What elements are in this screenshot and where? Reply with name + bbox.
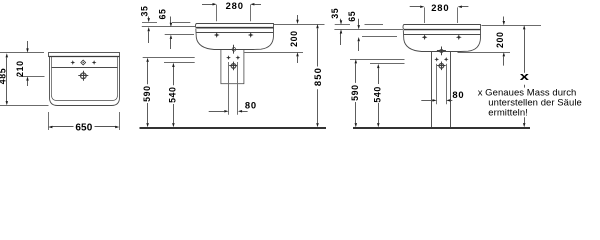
tap cross back (side A) (248, 32, 254, 38)
siphon box (side A) (221, 50, 244, 84)
dim 590 ref (side A) (143, 57, 195, 59)
dim 650 (52, 126, 74, 128)
floor line (side A) (140, 127, 327, 129)
svg-text:80: 80 (245, 99, 257, 110)
svg-text:280: 280 (226, 0, 244, 11)
dim 850 (side A) (316, 24, 319, 28)
dim 280 ext right (side A) (250, 5, 252, 22)
drain outlet cross (side B) (441, 47, 443, 56)
dim 200 (side A) (297, 15, 299, 20)
pedestal (side B) (431, 52, 433, 129)
rim band (side A) (195, 24, 273, 29)
fixing screw left (side B) (434, 57, 439, 62)
deck line (side A) (196, 32, 273, 34)
fixing screw left (side A) (226, 55, 231, 60)
svg-text:x: x (520, 71, 531, 83)
dim ref rim-top ext right (side A) (274, 24, 325, 26)
dim 540 (side A) (172, 63, 175, 67)
svg-text:850: 850 (312, 67, 323, 86)
dim ref L1 (35 top, side B) (335, 24, 350, 26)
dim 35 (side B) (340, 19, 342, 21)
dim 650 ext right (119, 112, 121, 130)
tap hole cross right (92, 60, 97, 65)
bowl profile (side A) (196, 28, 274, 50)
dim 200 (side B) (503, 17, 505, 22)
dim 65 (side A) (170, 17, 172, 24)
dim 280 ext left (side B) (424, 7, 426, 23)
deck line (side B) (404, 34, 481, 36)
svg-text:590: 590 (350, 84, 360, 100)
dim ref L3 tap level ext (side B) (362, 36, 397, 38)
svg-text:200: 200 (495, 32, 505, 48)
dim ref L3 tap level ext (side A) (165, 34, 194, 36)
tap hole cross centre (81, 60, 86, 65)
dim ref 200 bottom (side A) (244, 52, 303, 54)
svg-text:590: 590 (142, 85, 152, 101)
dim 540 ref (side A) (164, 62, 195, 64)
dim 35 (side A) (148, 17, 150, 19)
dim 80 ext left (side B) (436, 64, 438, 105)
fixing screw right (side B) (444, 57, 449, 62)
siphon circle (side B) (439, 63, 444, 68)
svg-text:ermitteln!: ermitteln! (488, 107, 528, 118)
dim 485 vertical (6, 53, 9, 57)
basin body inner (52, 57, 118, 101)
dim ref L2 rim bottom ext (side A) (142, 26, 195, 28)
dim ref line bottom (485) (0, 105, 49, 107)
dim 65 (side B) (358, 19, 360, 26)
rim band (side B) (403, 25, 481, 30)
svg-text:650: 650 (75, 122, 92, 133)
svg-text:200: 200 (289, 30, 299, 46)
bowl profile (side B) (403, 30, 480, 52)
dim 540 ref (side B) (370, 63, 405, 65)
deck line (52, 67, 118, 69)
dim 590 (side A) (146, 58, 149, 62)
dim 590 ref (side B) (350, 59, 405, 61)
dim 210 vertical (27, 41, 29, 49)
dim 280 ext right (side B) (457, 7, 459, 23)
dim 540 (side B) (377, 64, 380, 68)
basin rim band (front) (49, 53, 120, 57)
dim 280 (side B) (410, 6, 421, 8)
dim ref rim-top ext right (side B) (482, 25, 542, 27)
drain outlet cross (side A) (233, 45, 235, 54)
svg-text:540: 540 (373, 86, 383, 102)
dim 280 (side A) (202, 4, 213, 6)
svg-text:210: 210 (15, 60, 25, 76)
svg-text:35: 35 (330, 8, 340, 19)
dim 80 ext right (side B) (446, 64, 448, 105)
dim 80 (side A) (209, 111, 225, 113)
tap cross front (side B) (422, 34, 428, 40)
dim 650 ext left (48, 112, 50, 130)
dim 280 ext left (side A) (216, 5, 218, 22)
basin body outer (50, 57, 120, 106)
overflow/drain target (80, 73, 86, 79)
dim ref L1 (35 top, side A) (142, 22, 157, 24)
svg-text:485: 485 (0, 68, 8, 84)
dim 80 (side B) (421, 100, 432, 102)
floor line (side B) (353, 127, 530, 129)
dim ref line bottom (210) (19, 76, 45, 78)
dim ref L2 rim bottom ext (side B) (334, 29, 403, 31)
tap cross front (side A) (214, 32, 220, 38)
dim 80 ext right (side A) (237, 62, 239, 115)
dim 80 ext left (side A) (228, 62, 230, 115)
svg-text:80: 80 (452, 89, 464, 100)
svg-text:35: 35 (140, 6, 150, 17)
svg-text:65: 65 (157, 9, 167, 20)
siphon circle (side A) (231, 63, 236, 68)
dim x vertical (side B) (523, 25, 526, 29)
tap cross back (side B) (456, 34, 462, 40)
dim 590 (side B) (355, 59, 358, 63)
fixing screw right (side A) (236, 55, 241, 60)
svg-text:65: 65 (347, 11, 357, 22)
dim ref 200/x bottom (side B) (458, 52, 511, 54)
tap hole cross left (70, 60, 75, 65)
svg-text:280: 280 (431, 2, 449, 13)
dim ref line top (485/210) (0, 52, 44, 54)
svg-text:540: 540 (168, 86, 178, 102)
